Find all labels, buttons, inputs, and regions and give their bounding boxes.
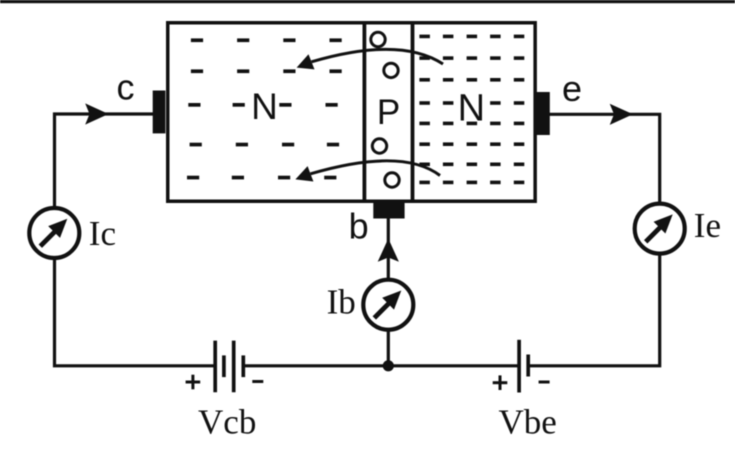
svg-text:Ie: Ie [694, 206, 721, 245]
svg-text:P: P [377, 93, 400, 132]
svg-text:Ic: Ic [89, 214, 116, 253]
svg-text:b: b [349, 205, 369, 246]
svg-text:N: N [458, 88, 485, 130]
svg-text:Ib: Ib [327, 283, 356, 322]
svg-text:Vbe: Vbe [498, 403, 556, 442]
svg-text:e: e [562, 68, 582, 109]
svg-text:N: N [251, 86, 278, 127]
svg-text:c: c [117, 66, 135, 107]
svg-text:Vcb: Vcb [198, 403, 256, 442]
